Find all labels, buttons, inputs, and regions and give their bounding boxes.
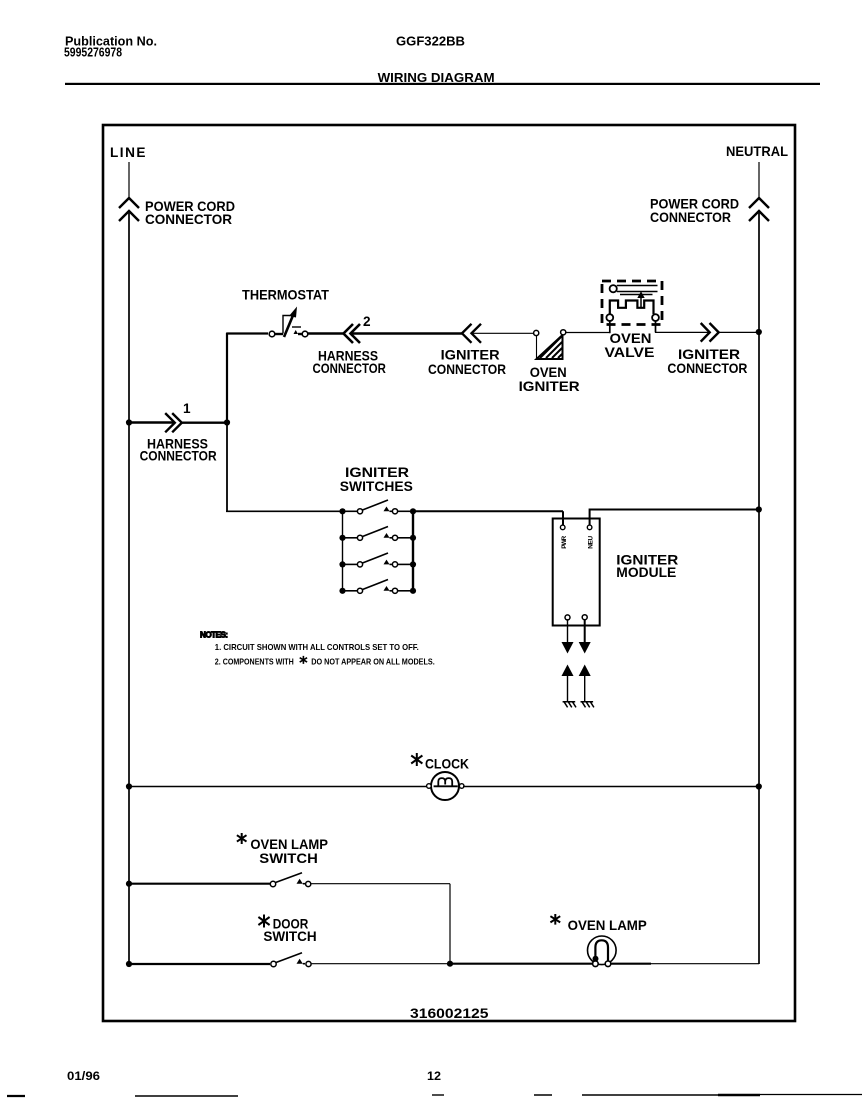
- oven lamp switch asterisk: [237, 833, 247, 844]
- svg-text:CONNECTOR: CONNECTOR: [140, 449, 217, 464]
- wire: switch bus from riser: [226, 423, 228, 512]
- door switch asterisk: [258, 915, 269, 928]
- wire: igniter connector to oven igniter: [472, 332, 534, 334]
- igniter switch row 3: [339, 553, 416, 568]
- igniter switch row 1: [339, 500, 416, 514]
- svg-text:CONNECTOR: CONNECTOR: [667, 361, 747, 376]
- spark lead 2 (down arrow): [584, 620, 586, 643]
- svg-text:OVEN LAMP: OVEN LAMP: [568, 918, 647, 933]
- svg-text:CONNECTOR: CONNECTOR: [650, 210, 731, 225]
- power cord connector right (chevrons): [749, 198, 769, 221]
- wire: clock bus left: [129, 786, 428, 788]
- oven lamp asterisk: [550, 914, 560, 925]
- wire: igniter module NEU to neutral: [590, 510, 759, 526]
- electrode 1 (up arrow to burner): [562, 665, 574, 677]
- svg-text:SWITCH: SWITCH: [259, 851, 318, 866]
- svg-text:2: 2: [363, 314, 371, 329]
- igniter switches left rail: [342, 511, 344, 591]
- svg-text:CLOCK: CLOCK: [425, 757, 469, 772]
- igniter connector left (chevrons): [462, 324, 481, 343]
- oven valve: [602, 281, 662, 325]
- igniter switch row 2: [339, 527, 416, 541]
- wire: harness connector 2 to igniter connector: [351, 332, 463, 334]
- junction: lamp drop at door row: [447, 961, 453, 967]
- svg-text:LINE: LINE: [110, 145, 147, 160]
- svg-text:CONNECTOR: CONNECTOR: [313, 361, 387, 376]
- wire: oven valve to igniter connector right: [655, 321, 657, 332]
- wire: line to lamp switch: [129, 883, 270, 885]
- svg-text:IGNITER: IGNITER: [345, 465, 409, 480]
- oven valve terminal left: [606, 314, 613, 321]
- wire: switch bus to igniter module PWR: [413, 511, 563, 525]
- header rule: [65, 83, 820, 85]
- svg-text:CONNECTOR: CONNECTOR: [145, 212, 232, 227]
- svg-text:1. CIRCUIT SHOWN WITH ALL CONT: 1. CIRCUIT SHOWN WITH ALL CONTROLS SET T…: [215, 643, 419, 652]
- igniter module box: [553, 519, 600, 626]
- wire: LINE lead-in: [128, 162, 130, 197]
- wire: oven igniter to oven valve: [566, 332, 610, 334]
- wire: igniter connector right to neutral: [719, 331, 759, 333]
- footer scan line fragments: [7, 1095, 25, 1097]
- igniter module pin PWR: [560, 525, 565, 530]
- wire: NEUTRAL vertical bus: [758, 213, 760, 964]
- svg-text:SWITCHES: SWITCHES: [340, 479, 413, 494]
- oven valve sensor bulb: [610, 285, 617, 292]
- igniter module pin NEU: [587, 525, 592, 530]
- clock motor: [427, 772, 464, 800]
- svg-text:THERMOSTAT: THERMOSTAT: [242, 288, 330, 303]
- junction: line at clock bus: [126, 783, 132, 789]
- igniter connector right (chevrons): [701, 323, 719, 342]
- wire: NEUTRAL lead-in: [758, 162, 760, 197]
- oven valve actuator arrow: [640, 296, 642, 308]
- oven valve terminal right: [652, 314, 659, 321]
- junction: neutral at igniter branch: [756, 329, 762, 335]
- igniter module bottom pin 1: [565, 615, 570, 620]
- oven valve dashed enclosure: [602, 281, 662, 325]
- junction: line at harness connector 1: [126, 419, 132, 425]
- svg-text:NOTES:: NOTES:: [200, 631, 228, 640]
- wire: line to harness connector 1: [129, 421, 174, 423]
- burner ground hatch 2: [581, 702, 594, 708]
- svg-text:5995276978: 5995276978: [64, 46, 122, 60]
- wire: lamp to neutral corner: [611, 963, 651, 965]
- wire: thermostat to harness connector 2: [308, 332, 343, 334]
- wire: harness connector 1 to riser: [182, 422, 227, 424]
- svg-text:2. COMPONENTS WITH: 2. COMPONENTS WITH: [215, 658, 294, 667]
- oven valve solenoid castellation: [610, 301, 654, 315]
- svg-text:PWR: PWR: [561, 536, 568, 549]
- svg-text:12: 12: [427, 1069, 441, 1083]
- diagram frame: [103, 125, 795, 1021]
- svg-text:SWITCH: SWITCH: [263, 929, 316, 944]
- clock asterisk: [411, 753, 422, 766]
- junction: neutral at igniter module: [756, 506, 762, 512]
- svg-text:OVEN: OVEN: [610, 331, 652, 346]
- oven igniter: [534, 330, 566, 359]
- svg-text:1: 1: [183, 401, 191, 416]
- burner ground hatch 1: [563, 702, 576, 708]
- wire: door switch to lamp: [311, 963, 450, 965]
- svg-text:CONNECTOR: CONNECTOR: [428, 362, 506, 377]
- junction: riser at harness connector 1: [224, 419, 230, 425]
- svg-text:NEU: NEU: [588, 536, 595, 549]
- svg-text:OVEN: OVEN: [530, 365, 567, 380]
- junction: line at lamp switch: [126, 881, 132, 887]
- power cord connector left (chevrons): [119, 198, 139, 221]
- electrode 2 (up arrow to burner): [579, 665, 591, 677]
- svg-text:IGNITER: IGNITER: [678, 347, 740, 362]
- svg-text:GGF322BB: GGF322BB: [396, 35, 465, 49]
- thermostat: [269, 307, 308, 338]
- wire: LINE vertical bus: [128, 213, 130, 964]
- svg-text:MODULE: MODULE: [616, 565, 676, 580]
- svg-text:IGNITER: IGNITER: [441, 348, 500, 363]
- harness connector 2 (chevrons): [344, 324, 361, 343]
- svg-text:01/96: 01/96: [67, 1069, 100, 1083]
- junction: neutral at clock bus: [756, 783, 762, 789]
- oven lamp: [588, 936, 617, 967]
- door switch: [271, 953, 311, 967]
- svg-text:DO NOT APPEAR ON ALL MODELS.: DO NOT APPEAR ON ALL MODELS.: [311, 658, 435, 667]
- svg-text:VALVE: VALVE: [605, 345, 655, 360]
- wire: thermostat branch riser: [226, 333, 228, 423]
- svg-text:IGNITER: IGNITER: [519, 379, 580, 394]
- wire: line to door switch: [129, 963, 270, 965]
- igniter switches right rail: [412, 511, 414, 591]
- wire: clock bus right: [463, 786, 759, 788]
- spark lead 1 (down arrow): [567, 620, 569, 643]
- svg-text:OVEN LAMP: OVEN LAMP: [250, 837, 328, 852]
- junction: line at door switch: [126, 961, 132, 967]
- igniter switch row 4: [339, 580, 416, 594]
- harness connector 1 (chevrons): [165, 413, 182, 432]
- wire: lamp switch to drop: [311, 884, 450, 964]
- svg-text:316002125: 316002125: [410, 1006, 489, 1021]
- oven lamp switch: [270, 873, 311, 887]
- igniter module bottom pin 2: [582, 615, 587, 620]
- svg-text:NEUTRAL: NEUTRAL: [726, 144, 788, 159]
